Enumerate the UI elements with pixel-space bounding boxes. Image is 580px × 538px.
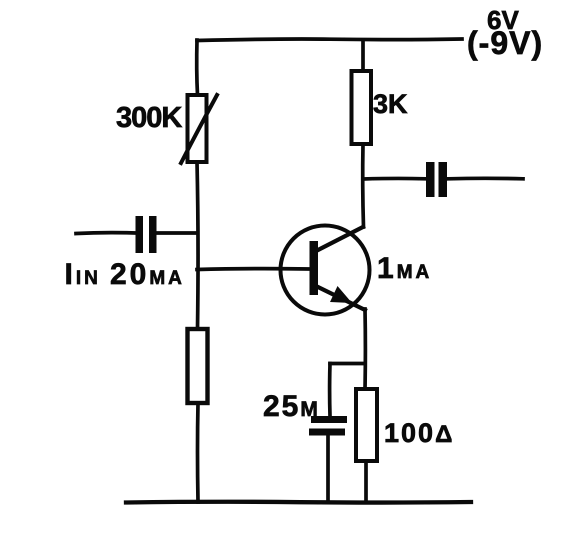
svg-text:300K: 300K [116, 102, 182, 134]
svg-text:3K: 3K [373, 89, 408, 119]
svg-text:100Δ: 100Δ [384, 418, 454, 448]
svg-text:(-9V): (-9V) [467, 25, 543, 61]
